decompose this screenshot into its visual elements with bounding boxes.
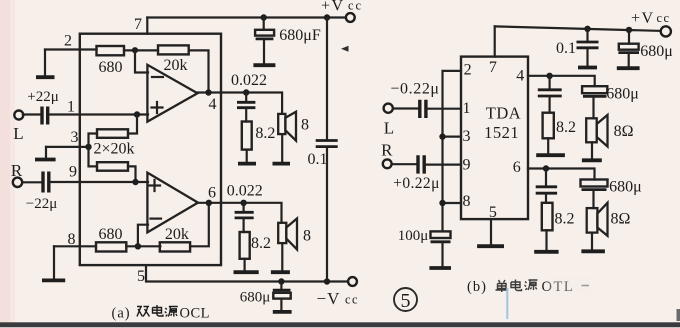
wire 680 to 20k — [124, 49, 158, 51]
capacitor -22u — [43, 172, 49, 193]
svg-text:8: 8 — [68, 231, 76, 248]
caption glyph dian2 — [511, 280, 522, 291]
node pin8 bus — [439, 200, 445, 206]
svg-text:+V: +V — [321, 0, 345, 15]
IC box TDA1521 — [461, 57, 528, 220]
svg-text:(b): (b) — [467, 279, 487, 295]
wire L to cap right — [393, 107, 418, 109]
wire pin1 right — [427, 108, 461, 110]
IC box U1 — [80, 34, 221, 265]
caption glyph shuang — [137, 307, 150, 317]
wire 20kb to output — [191, 203, 209, 247]
resistor 8.2 bottom — [240, 232, 250, 259]
wire pin5 to -Vcc — [146, 265, 349, 281]
svg-text:8.2: 8.2 — [251, 235, 271, 252]
resistor 8.2 top — [242, 122, 252, 150]
svg-text:680μ: 680μ — [609, 178, 642, 195]
capacitor zobel6 — [536, 169, 557, 203]
caption glyph yuan2 — [525, 280, 538, 290]
svg-text:680μ: 680μ — [240, 290, 271, 306]
terminal +Vcc left — [346, 13, 355, 22]
svg-text:8: 8 — [301, 117, 309, 134]
capacitor 680u top right — [617, 30, 640, 68]
wire pin3 — [46, 146, 89, 148]
resistor 20k top — [158, 45, 189, 54]
svg-text:+22μ: +22μ — [27, 89, 59, 105]
resistor 680 bottom — [96, 242, 126, 251]
svg-text:R: R — [381, 141, 393, 160]
capacitor 0.1 right — [577, 29, 599, 68]
node -Vcc 680u — [278, 278, 284, 284]
wire 2x20k lower to pin9 node — [128, 166, 136, 182]
svg-text:680: 680 — [99, 59, 123, 76]
svg-text:L: L — [13, 124, 23, 143]
terminal -Vcc — [348, 277, 357, 286]
ground bar pin5 right — [477, 244, 504, 248]
bottom dark band — [0, 322, 680, 327]
svg-text:8: 8 — [303, 228, 311, 245]
svg-text:−0.22μ: −0.22μ — [390, 81, 439, 98]
capacitor 680u out4 — [582, 86, 607, 118]
svg-text:cc: cc — [345, 293, 359, 307]
svg-text:9: 9 — [69, 164, 77, 181]
svg-text:680: 680 — [99, 226, 123, 243]
svg-text:+0.22μ: +0.22μ — [393, 175, 440, 192]
svg-text:8.2: 8.2 — [555, 211, 575, 228]
svg-text:−V: −V — [317, 289, 341, 308]
node rail 0.1 — [584, 26, 590, 32]
wire pin7 riser right — [494, 26, 496, 56]
svg-text:0.022: 0.022 — [231, 72, 267, 89]
svg-text:680μ: 680μ — [640, 43, 673, 60]
right edge blob — [677, 309, 680, 321]
svg-text:0.1: 0.1 — [308, 151, 328, 168]
blue scan line — [506, 288, 508, 319]
resistor 2x20k upper — [97, 129, 128, 138]
resistor 8.2 ch2 — [542, 203, 553, 231]
wire pin3 stub — [443, 136, 462, 138]
svg-text:6: 6 — [208, 185, 216, 202]
capacitor +0.22u — [418, 155, 424, 173]
artifact arrowhead — [341, 46, 349, 52]
ground G2 (pin3) — [35, 147, 56, 160]
ground bar SP4 — [581, 249, 605, 253]
capacitor -0.22u — [420, 100, 426, 118]
svg-text:8: 8 — [463, 193, 471, 210]
wire pin9 right — [425, 164, 461, 166]
wire to lower 2x20k — [89, 147, 98, 167]
resistor 20k bottom — [160, 242, 190, 251]
speaker SP3 — [586, 115, 607, 147]
wire 2x20k upper to pin1 node — [128, 115, 137, 134]
svg-text:−22μ: −22μ — [26, 196, 58, 212]
wire output A1 (pin4 net) — [196, 93, 282, 114]
wire pin9 — [50, 181, 148, 183]
wire L to cap — [23, 113, 42, 115]
svg-text:4: 4 — [516, 68, 524, 85]
wire to upper 2x20k — [89, 134, 98, 147]
svg-text:1: 1 — [67, 99, 75, 116]
node pin3 junction — [85, 144, 91, 150]
svg-text:7: 7 — [489, 59, 497, 76]
wire R to cap right — [392, 163, 417, 165]
wire pin6 net — [528, 169, 595, 180]
capacitor 0.022 bottom — [235, 203, 254, 232]
wire 8.2bot to gnd — [244, 259, 246, 271]
node feedback top — [132, 47, 138, 53]
ground bar SP3 — [582, 158, 602, 162]
svg-text:7: 7 — [134, 16, 142, 33]
svg-text:L: L — [384, 119, 394, 138]
resistor 8.2 ch1 — [543, 113, 554, 139]
terminal R input — [13, 178, 22, 187]
svg-text:1521: 1521 — [484, 123, 519, 142]
capacitor 0.1 — [316, 141, 338, 147]
svg-text:100μ: 100μ — [398, 228, 429, 244]
svg-text:8Ω: 8Ω — [611, 211, 631, 228]
svg-text:3: 3 — [71, 129, 79, 146]
svg-text:0.022: 0.022 — [227, 183, 263, 200]
op-amp A1 — [147, 65, 197, 122]
svg-text:6: 6 — [513, 159, 521, 176]
speaker SP1 — [278, 112, 296, 141]
svg-text:5: 5 — [401, 290, 411, 312]
terminal L right — [384, 104, 393, 113]
ground bar 8.2 top — [238, 162, 256, 166]
node junction top rail — [324, 14, 330, 20]
node pin1/2x20k — [134, 111, 140, 117]
node -Vcc rail — [324, 278, 330, 284]
node output6 a — [206, 200, 212, 206]
capacitor 680u out6 — [581, 180, 608, 209]
wire feedback tap to op-amp A2 minus — [138, 225, 148, 247]
svg-text:2×20k: 2×20k — [93, 141, 134, 158]
wire pin1 — [49, 113, 148, 115]
svg-text:2: 2 — [464, 62, 472, 79]
svg-text:0.1: 0.1 — [556, 40, 576, 57]
wire SP2 to gnd — [281, 243, 283, 270]
svg-text:8Ω: 8Ω — [614, 123, 634, 140]
node output4 a — [205, 89, 211, 95]
svg-text:20k: 20k — [165, 226, 189, 243]
ground bar SP1 — [273, 162, 291, 166]
speaker SP2 — [278, 219, 297, 250]
wire +Vcc rail right — [495, 26, 662, 31]
node output4 b — [243, 89, 249, 95]
wire SP4 to gnd — [591, 233, 593, 249]
wire +Vcc rail top — [147, 16, 346, 18]
wire pin2-3-8 bus — [443, 71, 462, 232]
node output6 b — [240, 200, 246, 206]
svg-text:9: 9 — [463, 157, 471, 174]
terminal R right — [383, 159, 392, 168]
svg-text:680μF: 680μF — [279, 27, 321, 44]
svg-text:3: 3 — [463, 128, 471, 145]
wire pin4 net — [528, 76, 595, 86]
caption glyph yuan — [165, 307, 178, 317]
wire feedback tap to op-amp minus — [135, 50, 148, 72]
wire right rail upper — [326, 18, 328, 141]
svg-text:20k: 20k — [164, 57, 188, 74]
wire pin5 riser right — [490, 219, 492, 244]
capacitor 100u — [429, 231, 451, 268]
svg-text:+V: +V — [631, 10, 655, 27]
svg-text:2: 2 — [64, 33, 72, 50]
svg-text:1: 1 — [463, 100, 471, 117]
ground G1 (pin2) — [36, 50, 55, 78]
capacitor 0.022 top — [237, 93, 255, 122]
wire output A2 (pin6 net) — [197, 203, 282, 223]
op-amp A2 — [147, 173, 198, 233]
ground bar SP2 — [271, 270, 290, 274]
wire SP3 to gnd — [591, 142, 593, 158]
svg-text:TDA: TDA — [486, 104, 521, 123]
resistor 680 top — [97, 46, 125, 55]
svg-text:8.2: 8.2 — [556, 119, 576, 136]
pink left edge tint — [0, 0, 10, 323]
capacitor 680uF — [253, 18, 275, 66]
node pin6 zobel — [543, 165, 549, 171]
svg-text:(a): (a) — [112, 306, 131, 322]
ground G3 (pin8) — [42, 246, 65, 280]
wire 8.2top to gnd — [246, 150, 248, 162]
node junction top 680uF — [261, 14, 267, 20]
svg-text:8.2: 8.2 — [255, 125, 275, 142]
svg-text:4: 4 — [209, 96, 217, 113]
capacitor zobel4 — [538, 76, 562, 113]
wire pin8 stub — [443, 202, 462, 204]
circled figure number 5 — [394, 288, 417, 312]
caption glyph dian — [153, 305, 164, 316]
capacitor +22u — [42, 107, 48, 125]
svg-text:R: R — [11, 161, 23, 180]
capacitor 680u bottom — [273, 282, 292, 312]
caption glyph dan — [496, 280, 509, 292]
svg-text:cc: cc — [348, 0, 363, 13]
wire SP1 to gnd — [281, 134, 283, 162]
node pin9/2x20k — [132, 179, 138, 185]
wire 680b to 20kb — [126, 245, 160, 247]
faint dash — [582, 285, 590, 287]
ground bar zobel6 — [534, 250, 558, 254]
wire 8.2ch1 to gnd — [547, 138, 549, 153]
wire pin2 — [45, 48, 97, 50]
svg-text:680μ: 680μ — [606, 86, 639, 103]
wire 20k to output — [189, 50, 209, 92]
wire R to cap — [22, 181, 42, 183]
terminal L input — [14, 111, 23, 120]
node pin4 zobel — [546, 73, 552, 79]
node pin3 bus — [439, 133, 445, 139]
node feedback bottom — [135, 243, 141, 249]
wire pin7 riser — [146, 18, 148, 34]
speaker SP4 — [587, 203, 608, 236]
ground bar 8.2 bottom — [234, 270, 259, 274]
svg-text:cc: cc — [657, 11, 671, 25]
bottom light strip — [0, 327, 680, 328]
node rail 680u — [626, 27, 632, 33]
svg-text:OCL: OCL — [180, 306, 211, 322]
wire right rail lower — [326, 148, 328, 282]
resistor 2x20k lower — [97, 162, 128, 171]
wire pin8 — [54, 245, 96, 247]
ground bar zobel4 — [536, 153, 565, 157]
white smudge over caption — [549, 276, 591, 293]
terminal +Vcc right — [661, 26, 671, 36]
wire 8.2ch2 to gnd — [545, 230, 547, 249]
svg-text:5: 5 — [137, 268, 145, 285]
